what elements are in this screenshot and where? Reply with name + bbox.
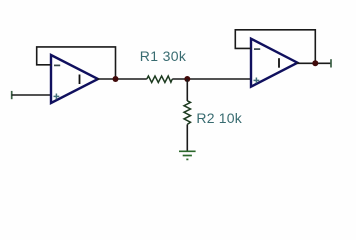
svg-text:R2 10k: R2 10k bbox=[196, 110, 242, 126]
output terminal bbox=[330, 59, 332, 67]
op-amp U1 bbox=[51, 55, 98, 103]
wire U1 output to R1 bbox=[97, 78, 147, 80]
wire node to R2 bbox=[186, 79, 188, 101]
op-amp U2 bbox=[251, 39, 298, 87]
ground bbox=[179, 151, 196, 159]
resistor R2 bbox=[184, 101, 191, 125]
label R1 value bbox=[140, 48, 187, 64]
input terminal bbox=[11, 91, 13, 99]
resistor R1 bbox=[147, 76, 173, 83]
svg-text:R1 30k: R1 30k bbox=[140, 48, 187, 64]
wire feedback loop U1 output to inverting input bbox=[37, 47, 116, 79]
label R2 value bbox=[196, 110, 242, 126]
wire feedback loop U2 output to inverting input bbox=[235, 30, 315, 64]
wire U2 output to terminal bbox=[297, 62, 332, 64]
wire R2 to ground bbox=[186, 124, 188, 151]
wire R1 to node to op-amp U2 noninverting input bbox=[172, 78, 251, 80]
node R1 R2 junction bbox=[184, 76, 190, 82]
node U1 output junction bbox=[113, 76, 119, 82]
node U2 output junction bbox=[312, 60, 318, 66]
wire input to op-amp U1 noninverting input bbox=[12, 94, 51, 96]
